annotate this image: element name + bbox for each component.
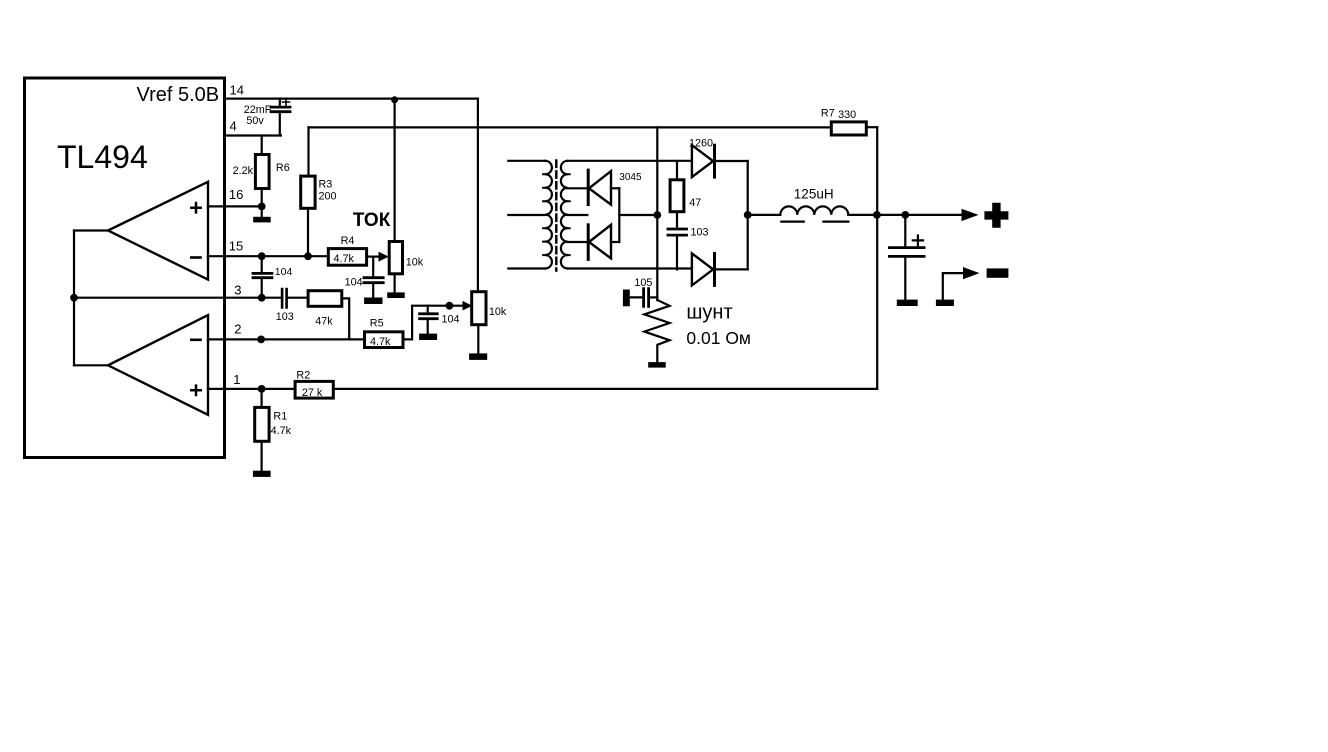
svg-text:4.7k: 4.7k — [334, 253, 355, 265]
wire minus terminal L-shape — [943, 273, 963, 300]
resistor R6 body — [255, 155, 269, 189]
wire 47k right down to pin2 — [342, 298, 349, 339]
wire pot2 top vertical — [477, 99, 479, 292]
op-amp A2 + input sign — [191, 386, 200, 395]
wire 47 to cap 103 — [676, 212, 678, 229]
svg-text:103: 103 — [276, 311, 294, 323]
svg-text:0.01 Ом: 0.01 Ом — [686, 328, 751, 348]
wire inductor to output — [848, 214, 963, 216]
capacitor 105 left lead — [630, 296, 644, 298]
capacitor 104 before pot2 bottom stub — [427, 319, 429, 334]
svg-text:R7: R7 — [821, 108, 835, 120]
resistor R4 body — [328, 249, 366, 266]
ground pin16 — [253, 217, 271, 223]
diode D3 1260 upper cathode bar — [713, 145, 716, 177]
wire R7 right to riser — [866, 126, 877, 128]
svg-text:27 k: 27 k — [302, 387, 323, 399]
capacitor 22mF bottom stub — [279, 112, 281, 136]
potentiometer pot2 body 10k — [472, 292, 486, 325]
svg-text:10k: 10k — [406, 257, 424, 269]
svg-text:47: 47 — [689, 197, 701, 209]
svg-text:200: 200 — [319, 191, 337, 203]
transformer T1 secondary winding coil — [561, 161, 568, 269]
node output cap junction dot — [901, 211, 909, 219]
svg-text:15: 15 — [229, 239, 243, 254]
resistor R3 body — [301, 176, 315, 208]
capacitor output plates — [889, 248, 924, 257]
resistor R7 body — [831, 122, 866, 135]
diode D4 1260 lower cathode bar — [713, 253, 716, 285]
ground shunt — [648, 362, 666, 368]
svg-text:330: 330 — [838, 109, 856, 121]
wire pin 15 — [208, 255, 328, 257]
svg-text:R6: R6 — [276, 162, 290, 174]
svg-text:4.7k: 4.7k — [370, 336, 391, 348]
capacitor 104 pin15-pin3 bottom stub — [261, 278, 263, 298]
capacitor 104 before pot2 stub — [427, 306, 429, 314]
capacitor output top stub — [904, 215, 906, 248]
wire right riser to R7 — [876, 127, 878, 389]
wire 3045 anode bus — [618, 188, 620, 242]
node pin3 junction dot — [258, 294, 266, 302]
wire feedback vertical — [73, 231, 75, 366]
wire primary top lead — [508, 160, 545, 162]
svg-text:R5: R5 — [370, 318, 384, 330]
capacitor output polarity + — [913, 236, 923, 246]
svg-text:104: 104 — [345, 277, 363, 289]
svg-text:шунт: шунт — [686, 302, 732, 324]
diode D4 1260 lower triangle — [692, 253, 713, 285]
transformer T1 secondary cusp ticks — [568, 174, 570, 255]
wire D3 cathode to right — [715, 160, 748, 162]
diode D1 3045 upper cathode bar — [587, 170, 590, 205]
wire secondary bottom rail to D4 — [568, 267, 692, 269]
transformer T1 primary cusp ticks — [543, 174, 545, 255]
svg-text:105: 105 — [634, 277, 652, 289]
wire pin 3 — [74, 297, 282, 299]
wire pot1 bottom stub — [394, 274, 396, 293]
svg-text:Vref 5.0B: Vref 5.0B — [137, 84, 220, 106]
wire supply rail to R7 — [309, 126, 832, 128]
capacitor 103 series plates — [282, 289, 287, 308]
resistor shunt zigzag — [644, 300, 669, 362]
svg-text:14: 14 — [230, 83, 244, 98]
ground minus terminal — [936, 300, 954, 306]
capacitor 22mF plates — [271, 107, 290, 112]
diode D3 1260 upper triangle — [692, 145, 713, 177]
svg-text:104: 104 — [442, 314, 460, 326]
node pin15 junction dot 1 — [258, 252, 266, 260]
wire pin 2 — [208, 338, 365, 340]
ground output cap — [897, 300, 918, 306]
terminal plus symbol — [984, 203, 1008, 228]
wire 3045 output to shunt node — [619, 214, 657, 216]
arrow output minus — [963, 267, 980, 279]
wire primary center lead — [508, 214, 545, 216]
wiper arrow pot1 — [379, 252, 389, 262]
svg-text:1: 1 — [233, 372, 240, 387]
node pin15 junction dot 2 — [304, 252, 312, 260]
capacitor 22mF polarity + — [283, 99, 290, 106]
capacitor 104 under R4 top stub — [372, 257, 374, 278]
svg-text:125uH: 125uH — [794, 186, 834, 201]
wire shunt riser vertical — [656, 127, 658, 300]
node feedback junction dot — [70, 294, 78, 302]
capacitor 104 pin15-pin3 plates — [253, 273, 272, 277]
svg-text:3: 3 — [234, 283, 241, 298]
wire secondary center tap stub — [568, 214, 588, 216]
inductor L1 humps — [780, 206, 848, 215]
resistor R1 bottom stub — [261, 441, 263, 470]
wire secondary top rail to D3 — [568, 160, 692, 162]
resistor 47 body — [670, 180, 684, 212]
op-amp A1 (upper error amplifier) — [108, 182, 208, 280]
resistor R6 bottom stub — [261, 189, 263, 207]
op-amp A2 (lower error amplifier) — [108, 315, 208, 415]
node 3045 output junction dot — [653, 211, 661, 219]
wire feedback to A2 output — [74, 364, 108, 366]
capacitor output bottom stub — [904, 256, 906, 299]
op-amp A2 - input sign — [191, 338, 200, 341]
svg-text:3045: 3045 — [619, 172, 642, 183]
wire R4 to pot1 — [367, 256, 379, 258]
capacitor 103 snubber bottom stub — [676, 235, 678, 269]
node pin2 junction dot — [257, 336, 265, 344]
node output crossing dot — [873, 211, 881, 219]
capacitor 103 snubber plates — [668, 229, 687, 235]
wiper arrow pot2 — [463, 301, 473, 311]
svg-text:103: 103 — [691, 227, 709, 239]
ground R1 — [253, 471, 271, 477]
wire pin 4 — [225, 134, 281, 136]
resistor R2 body — [295, 381, 333, 398]
svg-text:ТОК: ТОК — [353, 210, 391, 231]
svg-text:16: 16 — [229, 187, 243, 202]
diode D2 3045 lower cathode bar — [587, 225, 590, 260]
wire R3 top vertical — [307, 127, 309, 176]
terminal minus symbol — [987, 268, 1009, 277]
capacitor 104 under R4 plates — [364, 278, 383, 283]
op-amp U1 (TL494 outline box) — [25, 78, 225, 458]
capacitor 104 under R4 bottom stub — [372, 283, 374, 298]
svg-text:R3: R3 — [319, 179, 333, 191]
wire pin16 ground stub — [261, 206, 263, 216]
wire pot2 bottom stub — [477, 325, 479, 354]
resistor R1 body — [255, 407, 269, 441]
wire pin 14 rail — [225, 97, 478, 99]
capacitor 105 plates — [644, 289, 649, 307]
diode D1 3045 upper triangle — [589, 171, 611, 205]
wire feedback from A1 output — [74, 229, 108, 231]
wire D1 anode — [611, 187, 619, 189]
svg-text:104: 104 — [275, 266, 293, 278]
wire D4 cathode to right — [715, 268, 748, 270]
svg-text:TL494: TL494 — [57, 139, 148, 175]
capacitor 22mF top stub — [279, 99, 281, 108]
svg-text:2: 2 — [234, 322, 241, 337]
svg-text:R1: R1 — [273, 411, 287, 423]
wire pin 16 — [208, 205, 262, 207]
wire pin 1 — [208, 388, 295, 390]
op-amp A1 - input sign — [191, 256, 200, 259]
ground capacitor 104 before pot2 — [419, 334, 437, 340]
svg-text:R2: R2 — [296, 370, 310, 382]
op-amp A1 + input sign — [191, 203, 200, 212]
arrow output plus — [962, 209, 979, 221]
capacitor 105 left terminal — [623, 290, 630, 307]
transformer T1 core dashed line — [555, 161, 557, 271]
ground pot2 — [469, 353, 487, 360]
diode D2 3045 lower triangle — [589, 225, 611, 259]
svg-text:2.2k: 2.2k — [233, 165, 254, 177]
node junction dot before pot2 — [446, 302, 454, 310]
node 1260 output junction dot — [744, 211, 752, 219]
resistor R6 top stub — [261, 136, 263, 155]
resistor 47k body — [308, 291, 342, 307]
wire primary bottom lead — [508, 267, 545, 269]
wire R5 to pot2 — [403, 306, 464, 340]
svg-text:10k: 10k — [489, 306, 507, 318]
capacitor 105 right lead — [649, 296, 657, 298]
inductor L1 core dashes — [781, 221, 848, 223]
node junction dot pot1 top — [391, 96, 398, 103]
wire D2 anode — [611, 241, 619, 243]
node pin1 junction dot — [258, 385, 266, 393]
wire secondary tap1 to D1 — [568, 187, 589, 189]
svg-text:R4: R4 — [341, 235, 355, 247]
ground capacitor 104 under R4 — [364, 298, 382, 305]
svg-text:4.7k: 4.7k — [271, 425, 292, 437]
ground pot1 — [387, 292, 405, 298]
potentiometer pot1 body 10k — [389, 242, 402, 274]
wire secondary tap2 to D2 — [568, 241, 589, 243]
resistor R1 top stub — [261, 389, 263, 408]
wire pot1 top vertical — [394, 99, 396, 242]
transformer T1 primary winding coil — [545, 161, 552, 269]
wire 1260 right vertical — [747, 161, 749, 269]
wire cap103 to 47k — [287, 297, 309, 299]
svg-text:47k: 47k — [315, 316, 333, 328]
wire pin1 long to right — [333, 388, 877, 390]
node pin16 junction dot — [258, 203, 266, 211]
svg-text:4: 4 — [230, 119, 237, 134]
resistor 47 top stub — [676, 161, 678, 180]
resistor R3 bottom stub — [307, 208, 309, 256]
wire 1260 node to inductor — [748, 214, 781, 216]
capacitor 104 before pot2 plates — [420, 314, 438, 319]
capacitor 104 pin15-pin3 top stub — [261, 256, 263, 273]
resistor R5 body — [365, 332, 404, 348]
svg-text:50v: 50v — [246, 115, 264, 127]
